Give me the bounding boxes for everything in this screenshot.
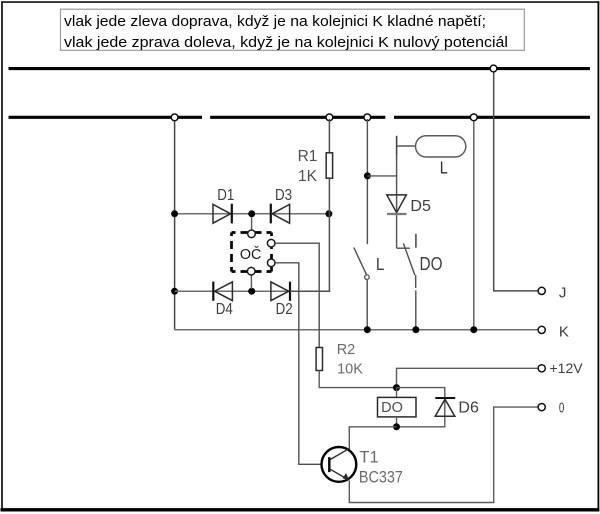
wire emitter down and to 0 terminal — [349, 407, 538, 502]
wire lamp branch horizontal — [367, 175, 396, 177]
rail 1 (top rail) — [9, 67, 591, 70]
note box — [61, 9, 525, 51]
svg-text:R1: R1 — [298, 148, 318, 165]
svg-text:K: K — [559, 323, 569, 340]
pin circle OC right bottom — [267, 259, 275, 267]
wire rail 2 to L switch — [366, 119, 368, 244]
svg-text:J: J — [559, 284, 567, 301]
wire junction to collector — [349, 427, 396, 448]
relay coil DO box — [378, 397, 417, 417]
lamp L terminal bar — [396, 136, 398, 156]
svg-text:DO: DO — [381, 400, 403, 416]
wire J vertical from rail 1 to terminal J — [494, 70, 539, 291]
switch L — [354, 248, 369, 330]
wire OC pin1 to R2 — [275, 243, 319, 347]
diode D3 — [271, 204, 290, 224]
junction at R1 line / D3 — [325, 210, 332, 217]
wire bottom bridge row — [175, 290, 331, 292]
pin circle OC bottom — [247, 267, 255, 275]
svg-text:+12V: +12V — [550, 360, 584, 376]
junction left bottom bridge — [171, 288, 178, 295]
svg-text:vlak jede zleva doprava, když: vlak jede zleva doprava, když je na kole… — [64, 13, 486, 30]
frame border right — [598, 1, 600, 511]
svg-text:D4: D4 — [216, 301, 233, 318]
node on rail 2 left — [171, 114, 178, 121]
node on rail 2 at L line — [364, 114, 371, 121]
wire +12V — [397, 368, 539, 387]
wire lamp bar down to D5 — [396, 156, 398, 249]
wire R1 down to D2 corner — [290, 178, 329, 291]
svg-text:D6: D6 — [458, 400, 479, 417]
frame border bottom — [1, 508, 600, 511]
wire left vertical from rail 2 down and K line — [174, 119, 176, 330]
node on rail 2 right — [470, 114, 477, 121]
switch DO — [397, 234, 416, 330]
svg-text:BC337: BC337 — [359, 468, 403, 487]
svg-text:OČ: OČ — [240, 246, 262, 263]
wire bottom pin to junction — [250, 274, 252, 289]
svg-text:R2: R2 — [337, 342, 356, 358]
wire top bridge row — [175, 213, 330, 215]
pin circle OC right top — [267, 239, 275, 247]
svg-text:DO: DO — [420, 254, 443, 274]
rail 2 (bottom rail) — [9, 116, 591, 119]
svg-text:T1: T1 — [359, 448, 378, 466]
svg-text:0: 0 — [559, 400, 565, 416]
junction bottom bridge center — [248, 288, 255, 295]
wire OC pin2 to transistor base — [275, 263, 328, 465]
svg-text:D1: D1 — [217, 187, 234, 204]
resistor R2 — [316, 348, 322, 371]
svg-text:10K: 10K — [337, 362, 363, 378]
terminal 0 — [538, 404, 545, 411]
wire top pin to junction — [251, 217, 253, 231]
svg-text:D2: D2 — [276, 301, 293, 318]
junction K line at DO switch — [412, 326, 419, 333]
terminal J — [538, 287, 545, 294]
wire junction to D6 top — [397, 388, 445, 427]
svg-text:L: L — [376, 254, 385, 274]
wire lamp lead — [397, 145, 416, 147]
pin circle OC top — [248, 230, 256, 238]
svg-text:1K: 1K — [298, 168, 318, 185]
terminal +12V — [538, 365, 545, 372]
frame border left — [1, 1, 3, 510]
svg-text:D5: D5 — [410, 198, 431, 215]
junction relay top — [393, 384, 400, 391]
node on rail 1 — [490, 65, 497, 72]
wire R2 to +12V junction — [319, 371, 396, 388]
optocoupler OC dashed box — [232, 233, 272, 272]
lamp L body — [416, 136, 466, 157]
wire junction to DO coil — [396, 388, 398, 398]
junction K line at L switch — [364, 326, 371, 333]
junction relay bottom — [393, 423, 400, 430]
diode D1 — [213, 204, 232, 224]
resistor R1 line from rail 2 — [328, 119, 330, 153]
diode D2 — [271, 282, 290, 301]
diode D4 — [213, 282, 232, 301]
diode D5 — [387, 195, 407, 214]
diode D6 — [435, 398, 455, 416]
svg-text:D3: D3 — [275, 187, 292, 204]
svg-text:L: L — [440, 157, 448, 177]
transistor T1 — [322, 447, 357, 482]
wire DO coil bottom — [396, 417, 398, 427]
junction top bridge center — [248, 210, 255, 217]
junction left top bridge — [171, 210, 178, 217]
terminal K — [538, 326, 545, 333]
node on rail 2 at R1 line — [326, 114, 333, 121]
frame border top — [1, 1, 599, 3]
junction K line at right vertical — [470, 326, 477, 333]
resistor R1 — [326, 153, 332, 178]
wire rail 2 to K line (right) — [473, 119, 475, 330]
svg-text:vlak jede zprava doleva, když: vlak jede zprava doleva, když je na kole… — [64, 34, 508, 51]
junction lamp branch — [364, 172, 371, 179]
